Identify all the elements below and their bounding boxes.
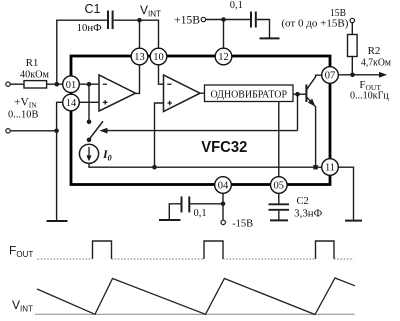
pin 04 bbox=[215, 177, 232, 194]
pin 13 bbox=[131, 48, 148, 65]
A1 plus bbox=[103, 100, 107, 104]
IC box VFC32 bbox=[71, 56, 330, 185]
terminal 15V for R2 bbox=[350, 18, 354, 22]
node R1/C1 junction bbox=[55, 82, 60, 87]
svg-text:+15В: +15В bbox=[174, 15, 200, 27]
capacitor 0,1 bottom bbox=[181, 197, 183, 213]
svg-text:05: 05 bbox=[274, 181, 285, 192]
wire C1 feedback left vertical bbox=[57, 20, 107, 84]
wire Vint to pin 13 bbox=[139, 20, 141, 48]
resistor R1 bbox=[24, 81, 47, 88]
svg-text:04: 04 bbox=[218, 181, 229, 192]
ground right bbox=[345, 220, 362, 222]
transistor emitter bbox=[307, 97, 316, 167]
svg-text:10: 10 bbox=[153, 52, 164, 63]
svg-text:40кОм: 40кОм bbox=[20, 70, 49, 81]
wire +15V to node bbox=[206, 19, 250, 21]
wire one-shot to switch control bbox=[297, 94, 299, 130]
wire pin 10 to A2 inverting input bbox=[159, 65, 164, 84]
svg-text:ОДНОВИБРАТОР: ОДНОВИБРАТОР bbox=[211, 90, 288, 101]
A2 plus bbox=[168, 101, 172, 105]
arrow switch control bbox=[100, 128, 108, 134]
wire C2 to ground bbox=[278, 211, 280, 220]
svg-text:C1: C1 bbox=[85, 2, 101, 16]
waveform Fout baseline bbox=[38, 258, 354, 260]
wire pin 07 to output arrow bbox=[338, 74, 380, 76]
switch contact bottom bbox=[87, 138, 92, 143]
pin 07 bbox=[322, 67, 339, 84]
transistor collector bbox=[307, 75, 322, 89]
waveform Vint sawtooth bbox=[37, 278, 355, 315]
resistor R2 bbox=[348, 35, 358, 57]
wire switch branch vertical bbox=[88, 84, 90, 122]
wire one-shot to transistor base bbox=[293, 93, 306, 95]
wire terminal to R2 bbox=[351, 23, 353, 35]
node Vint bbox=[137, 18, 142, 23]
wire pin 14 to common bbox=[57, 102, 63, 220]
wire Vint to pin 10 bbox=[140, 20, 159, 48]
svg-text:C2: C2 bbox=[297, 196, 309, 207]
wire pin 11 to ground bbox=[338, 167, 353, 220]
svg-text:(от 0 до +15В): (от 0 до +15В) bbox=[281, 19, 349, 30]
svg-text:14: 14 bbox=[66, 98, 77, 109]
node emitter / I0 row bbox=[313, 165, 317, 169]
wire A1 output to pin 13 bbox=[136, 65, 140, 94]
svg-text:-15В: -15В bbox=[232, 219, 253, 230]
current source arrow bbox=[88, 147, 90, 158]
wire one-shot to pin 05 bbox=[278, 102, 280, 177]
terminal +15V bbox=[201, 17, 205, 21]
svg-text:15В: 15В bbox=[330, 8, 346, 19]
capacitor C1 bbox=[107, 11, 109, 30]
pin 14 bbox=[63, 94, 80, 111]
pin 01 bbox=[63, 76, 80, 93]
svg-text:13: 13 bbox=[134, 52, 145, 63]
ground bottom left bbox=[159, 219, 181, 221]
arrow Fout bbox=[379, 72, 387, 78]
ground top right bbox=[260, 37, 280, 39]
svg-text:4,7кОм: 4,7кОм bbox=[361, 58, 392, 69]
input terminal +Vin bbox=[6, 82, 10, 86]
svg-text:0...10кГц: 0...10кГц bbox=[350, 91, 389, 102]
pin 12 bbox=[215, 48, 232, 65]
wire node to pin 12 bbox=[223, 20, 225, 49]
svg-text:0,1: 0,1 bbox=[230, 0, 243, 11]
waveform Fout pulses bbox=[93, 241, 335, 259]
wire C1 to Vint node bbox=[114, 19, 140, 21]
svg-text:12: 12 bbox=[218, 52, 229, 63]
waveform Vint baseline bbox=[35, 313, 355, 315]
A1 minus bbox=[103, 83, 107, 85]
node A1 input / switch branch bbox=[87, 82, 92, 87]
wire common input terminal bbox=[10, 130, 56, 132]
svg-text:07: 07 bbox=[325, 71, 336, 82]
wire I0 output row bbox=[89, 163, 322, 167]
wire R2 to Fout node bbox=[351, 57, 353, 75]
wire cap to ground bbox=[257, 20, 270, 38]
current source I0 bbox=[79, 144, 98, 163]
svg-text:11: 11 bbox=[325, 163, 335, 174]
wire pin 04 to -15V terminal bbox=[222, 193, 224, 220]
pin 10 bbox=[150, 48, 167, 65]
A2 minus bbox=[167, 83, 171, 85]
svg-text:01: 01 bbox=[66, 80, 77, 91]
input terminal common bbox=[6, 129, 10, 133]
wire switch control line bbox=[104, 130, 298, 132]
svg-text:3,3нФ: 3,3нФ bbox=[294, 208, 322, 219]
node A2+ / I0 bbox=[152, 165, 157, 170]
svg-text:0...10В: 0...10В bbox=[8, 109, 38, 120]
svg-text:10нФ: 10нФ bbox=[77, 23, 102, 34]
wire A2 output to one-shot bbox=[200, 92, 205, 94]
pin 05 bbox=[271, 177, 288, 194]
ground left bbox=[47, 220, 68, 222]
svg-text:R1: R1 bbox=[26, 57, 39, 69]
terminal -15V bbox=[221, 220, 225, 224]
capacitor 0,1 top bbox=[250, 12, 252, 28]
node Fout bbox=[350, 73, 355, 78]
ground under C2 bbox=[270, 219, 288, 221]
wire R1 to pin 01 bbox=[47, 83, 63, 85]
node one-shot output bbox=[295, 92, 300, 97]
wire cap to node bbox=[190, 203, 223, 205]
wire A2 noninverting input bbox=[155, 103, 164, 167]
emitter arrow bbox=[308, 99, 316, 107]
op-amp A2 bbox=[164, 75, 201, 112]
wire pin 05 to C2 bbox=[278, 193, 280, 203]
pin 11 bbox=[322, 159, 339, 176]
node +15V/pin12 bbox=[221, 17, 226, 22]
switch blade bbox=[89, 121, 103, 140]
capacitor C2 bbox=[269, 203, 290, 205]
wire pin 01 to A1 inverting input bbox=[79, 83, 99, 85]
op-amp A1 bbox=[99, 75, 136, 111]
wire pin 14 to A1 noninverting input bbox=[79, 101, 99, 103]
wire cap to ground bbox=[169, 204, 180, 219]
svg-text:VFC32: VFC32 bbox=[201, 139, 247, 156]
svg-text:R2: R2 bbox=[368, 45, 381, 57]
node common input bbox=[54, 129, 59, 134]
svg-text:0,1: 0,1 bbox=[193, 208, 206, 219]
one-shot box bbox=[205, 85, 294, 102]
transistor Q1 base bar bbox=[305, 85, 307, 103]
node pin04 / 0,1 cap bbox=[221, 202, 226, 207]
wire input top to R1 bbox=[10, 83, 24, 85]
switch contact top bbox=[87, 120, 92, 125]
